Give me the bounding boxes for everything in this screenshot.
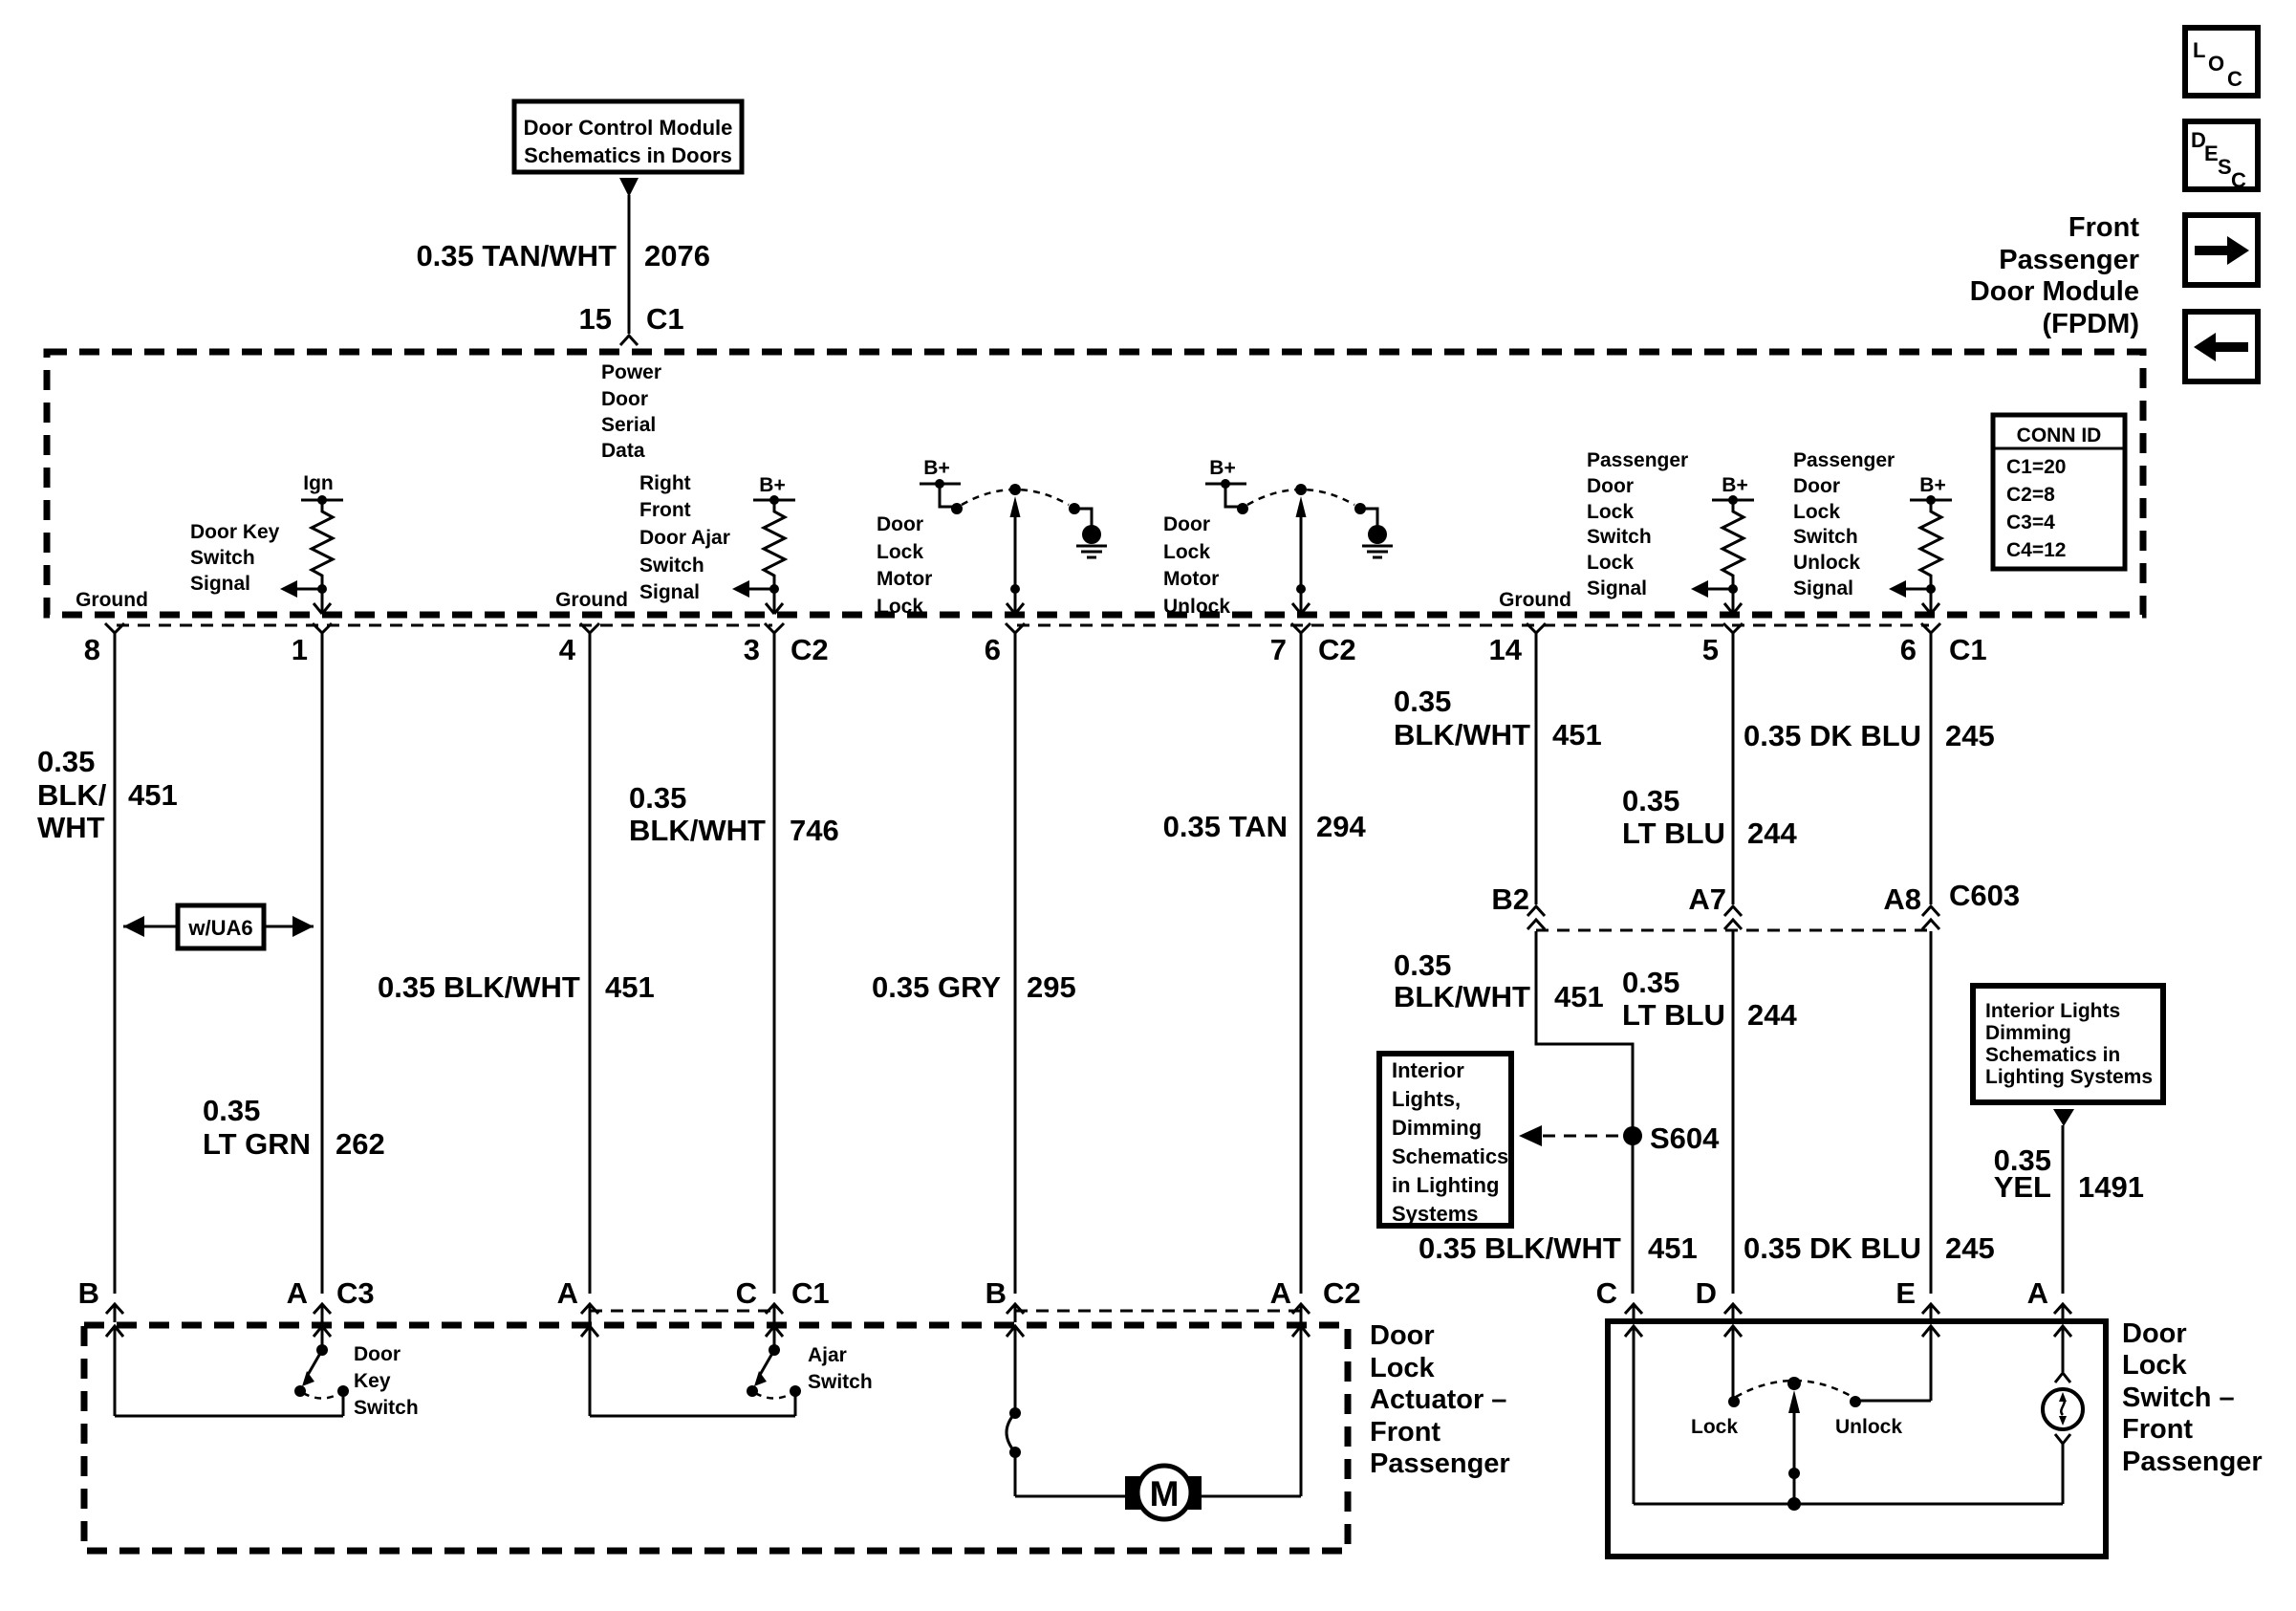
svg-text:C2=8: C2=8 bbox=[2006, 484, 2055, 506]
svg-text:0.35: 0.35 bbox=[1622, 966, 1679, 999]
wire 451 BLK/WHT pin 8 bbox=[114, 633, 117, 1294]
svg-text:Passenger: Passenger bbox=[1370, 1448, 1510, 1479]
svg-text:Passenger: Passenger bbox=[1793, 449, 1895, 471]
pin 6 bbox=[985, 623, 1025, 666]
svg-text:451: 451 bbox=[605, 970, 655, 1004]
resistor: B+ pull-up (door ajar switch signal) bbox=[732, 474, 795, 614]
wire 295 GRY pin 6 bbox=[1014, 633, 1017, 1294]
svg-text:Dimming: Dimming bbox=[1985, 1022, 2071, 1044]
pin 15 C1 connector caret bbox=[620, 336, 638, 345]
svg-text:451: 451 bbox=[1552, 718, 1602, 751]
svg-text:BLK/WHT: BLK/WHT bbox=[629, 814, 766, 847]
svg-text:Lock: Lock bbox=[877, 596, 923, 618]
svg-text:B: B bbox=[986, 1276, 1007, 1310]
svg-text:0.35 TAN/WHT: 0.35 TAN/WHT bbox=[416, 239, 617, 272]
svg-text:Door: Door bbox=[1587, 475, 1634, 497]
svg-text:Schematics: Schematics bbox=[1392, 1144, 1508, 1168]
svg-text:295: 295 bbox=[1027, 970, 1076, 1004]
connector dashed line C2/C1 under module bbox=[117, 624, 772, 627]
svg-text:B+: B+ bbox=[1209, 457, 1235, 479]
svg-text:Lighting Systems: Lighting Systems bbox=[1985, 1066, 2153, 1088]
module FPDM boundary bbox=[47, 352, 2143, 615]
svg-text:M: M bbox=[1150, 1474, 1180, 1513]
svg-text:Signal: Signal bbox=[1793, 577, 1853, 599]
svg-text:B+: B+ bbox=[759, 474, 785, 496]
label wire 262 bbox=[203, 1094, 385, 1161]
svg-text:C2: C2 bbox=[1323, 1276, 1361, 1310]
door key switch bbox=[115, 1327, 419, 1419]
svg-text:C3=4: C3=4 bbox=[2006, 512, 2055, 533]
svg-text:S604: S604 bbox=[1650, 1121, 1720, 1155]
svg-text:Schematics in: Schematics in bbox=[1985, 1044, 2120, 1066]
svg-text:Door: Door bbox=[877, 513, 923, 535]
svg-text:14: 14 bbox=[1489, 633, 1523, 666]
svg-text:Lights,: Lights, bbox=[1392, 1087, 1461, 1111]
label: Door Lock Motor Unlock bbox=[1163, 513, 1230, 618]
svg-text:Door: Door bbox=[601, 388, 648, 410]
svg-text:244: 244 bbox=[1747, 998, 1797, 1032]
svg-text:1: 1 bbox=[292, 633, 308, 666]
wire 262 LT GRN pin 1 bbox=[321, 633, 324, 1294]
label wire 451 pin 8 bbox=[37, 745, 178, 844]
svg-text:0.35 TAN: 0.35 TAN bbox=[1163, 810, 1288, 843]
svg-text:3: 3 bbox=[744, 633, 760, 666]
pin D switch bbox=[1696, 1276, 1742, 1322]
svg-text:Key: Key bbox=[354, 1370, 391, 1392]
resistor: B+ pull-up (lock signal) bbox=[1691, 474, 1754, 614]
connector C603 dashed line bbox=[1536, 929, 1931, 932]
svg-text:L: L bbox=[2193, 38, 2205, 62]
svg-text:BLK/: BLK/ bbox=[37, 778, 107, 812]
svg-text:Ground: Ground bbox=[76, 589, 148, 611]
icon box LOC bbox=[2185, 28, 2258, 96]
actuator pin arrows bbox=[106, 1326, 123, 1337]
svg-text:LT GRN: LT GRN bbox=[203, 1127, 311, 1161]
svg-text:451: 451 bbox=[128, 778, 178, 812]
svg-text:Front: Front bbox=[639, 499, 691, 521]
svg-text:D: D bbox=[1696, 1276, 1717, 1310]
svg-text:Passenger: Passenger bbox=[2122, 1447, 2263, 1477]
svg-text:S: S bbox=[2218, 155, 2232, 179]
svg-text:0.35 DK BLU: 0.35 DK BLU bbox=[1744, 719, 1921, 752]
pin A C2 actuator motor bbox=[1270, 1276, 1361, 1322]
pin A C3 actuator bbox=[287, 1276, 375, 1322]
svg-text:0.35: 0.35 bbox=[1622, 784, 1679, 817]
label: Passenger Door Lock Switch Lock Signal bbox=[1587, 449, 1688, 599]
svg-text:E: E bbox=[1895, 1276, 1916, 1310]
svg-text:BLK/WHT: BLK/WHT bbox=[1394, 718, 1530, 751]
lock/unlock rocker switch bbox=[1634, 1327, 2063, 1511]
header: Front Passenger Door Module (FPDM) bbox=[1970, 212, 2140, 339]
svg-text:245: 245 bbox=[1945, 1231, 1995, 1265]
pin 3 C2 bbox=[744, 623, 829, 666]
reference box: Interior Lights, Dimming Schematics in Lighting Systems (left) bbox=[1379, 1054, 1511, 1226]
svg-text:Motor: Motor bbox=[877, 568, 932, 590]
wire 294 TAN pin 7 bbox=[1300, 633, 1303, 1294]
switch pin arrows bbox=[1625, 1326, 1642, 1337]
svg-text:451: 451 bbox=[1648, 1231, 1698, 1265]
svg-text:Power: Power bbox=[601, 361, 661, 383]
CONN ID table bbox=[1993, 415, 2125, 569]
svg-text:Front: Front bbox=[2122, 1414, 2193, 1445]
svg-text:Lock: Lock bbox=[1163, 541, 1210, 563]
splice S604 bbox=[1623, 1121, 1720, 1155]
svg-text:Front: Front bbox=[2069, 212, 2139, 243]
svg-text:C4=12: C4=12 bbox=[2006, 539, 2066, 561]
dashed reference arrow from S604 bbox=[1519, 1125, 1621, 1146]
svg-text:451: 451 bbox=[1554, 980, 1604, 1013]
connector C603 row B2 A7 A8 bbox=[1491, 879, 2020, 916]
wire 451 BLK/WHT pin 14 to S604 and door lock switch bbox=[1536, 633, 1633, 1294]
svg-text:Lock: Lock bbox=[1587, 552, 1634, 574]
svg-text:Ground: Ground bbox=[1499, 589, 1571, 611]
label wire 244 upper bbox=[1622, 784, 1797, 850]
pin C C1 actuator bbox=[736, 1276, 830, 1322]
svg-text:1491: 1491 bbox=[2078, 1170, 2144, 1204]
svg-text:Actuator –: Actuator – bbox=[1370, 1384, 1506, 1415]
label wire 294 bbox=[1163, 810, 1367, 843]
svg-text:Door Key: Door Key bbox=[190, 521, 280, 543]
svg-text:C2: C2 bbox=[1318, 633, 1356, 666]
icon box arrow left bbox=[2185, 312, 2258, 381]
pin 1 bbox=[292, 623, 332, 666]
label: Door Lock Actuator - Front Passenger bbox=[1370, 1320, 1510, 1479]
pin 14 bbox=[1489, 623, 1546, 666]
svg-text:294: 294 bbox=[1316, 810, 1366, 843]
illumination lamp bbox=[2043, 1327, 2083, 1504]
svg-text:C1: C1 bbox=[646, 302, 684, 336]
resistor: Ign pull-up (door key switch signal) bbox=[280, 472, 343, 614]
svg-text:8: 8 bbox=[84, 633, 100, 666]
circuit breaker + motor M bbox=[1007, 1327, 1301, 1519]
svg-text:C2: C2 bbox=[791, 633, 829, 666]
svg-text:in Lighting: in Lighting bbox=[1392, 1173, 1499, 1197]
svg-text:0.35 BLK/WHT: 0.35 BLK/WHT bbox=[1419, 1231, 1621, 1265]
svg-text:Data: Data bbox=[601, 440, 645, 462]
svg-text:Door Control Module: Door Control Module bbox=[524, 116, 733, 140]
svg-text:C: C bbox=[1596, 1276, 1617, 1310]
svg-text:Systems: Systems bbox=[1392, 1202, 1479, 1226]
svg-text:0.35: 0.35 bbox=[37, 745, 95, 778]
label wire 245 upper bbox=[1744, 719, 1995, 752]
door lock switch solid box bbox=[1608, 1321, 2106, 1557]
wire 245 DK BLU pin 6 C1 bbox=[1930, 633, 1933, 1294]
label: Door Lock Motor Lock bbox=[877, 513, 932, 618]
svg-text:LT BLU: LT BLU bbox=[1622, 998, 1725, 1032]
pin 6 C1 bbox=[1900, 623, 1987, 666]
svg-text:(FPDM): (FPDM) bbox=[2043, 309, 2139, 339]
wire 746 BLK/WHT pin 3 bbox=[773, 633, 776, 1294]
pin A actuator (ajar) bbox=[557, 1276, 598, 1322]
svg-text:Switch: Switch bbox=[1587, 526, 1652, 548]
svg-text:5: 5 bbox=[1702, 633, 1719, 666]
svg-text:B+: B+ bbox=[1722, 474, 1747, 496]
svg-text:Signal: Signal bbox=[190, 573, 250, 595]
label wire 1491 YEL bbox=[1994, 1143, 2144, 1204]
icon box DESC bbox=[2185, 121, 2258, 192]
label: Power Door Serial Data bbox=[601, 361, 661, 462]
svg-text:262: 262 bbox=[336, 1127, 385, 1161]
svg-text:CONN ID: CONN ID bbox=[2017, 425, 2102, 446]
svg-text:0.35 DK BLU: 0.35 DK BLU bbox=[1744, 1231, 1921, 1265]
pin 8 bbox=[84, 623, 124, 666]
svg-text:Lock: Lock bbox=[1691, 1416, 1738, 1438]
svg-text:BLK/WHT: BLK/WHT bbox=[1394, 980, 1530, 1013]
svg-text:244: 244 bbox=[1747, 816, 1797, 850]
svg-text:Switch: Switch bbox=[639, 555, 704, 577]
svg-text:Dimming: Dimming bbox=[1392, 1116, 1482, 1140]
pin E switch bbox=[1895, 1276, 1939, 1322]
wire 244 LT BLU pin 5 bbox=[1732, 633, 1735, 1294]
svg-text:C1: C1 bbox=[1949, 633, 1987, 666]
label wire 451 pin 14 upper bbox=[1394, 685, 1602, 751]
label: Door Lock Switch - Front Passenger bbox=[2122, 1318, 2263, 1477]
svg-text:4: 4 bbox=[559, 633, 576, 666]
pin 7 C2 bbox=[1270, 623, 1356, 666]
svg-text:B: B bbox=[78, 1276, 99, 1310]
pin 4 bbox=[559, 623, 599, 666]
connector dashed line bottom bbox=[590, 1310, 774, 1313]
svg-text:Ground: Ground bbox=[555, 589, 628, 611]
svg-text:C: C bbox=[2231, 168, 2246, 192]
svg-text:7: 7 bbox=[1270, 633, 1287, 666]
svg-text:C603: C603 bbox=[1949, 879, 2020, 912]
svg-text:A: A bbox=[557, 1276, 578, 1310]
icon box arrow right bbox=[2185, 215, 2258, 285]
svg-text:Unlock: Unlock bbox=[1163, 596, 1230, 618]
svg-text:A7: A7 bbox=[1688, 882, 1726, 916]
wire 451 BLK/WHT pin 4 bbox=[589, 633, 592, 1294]
svg-text:C3: C3 bbox=[336, 1276, 375, 1310]
svg-text:Door: Door bbox=[1370, 1320, 1435, 1351]
svg-text:Switch: Switch bbox=[190, 547, 255, 569]
svg-text:0.35: 0.35 bbox=[203, 1094, 260, 1127]
svg-text:Right: Right bbox=[639, 472, 691, 494]
svg-text:Signal: Signal bbox=[1587, 577, 1647, 599]
driver output: door lock motor unlock (B+ / ground switch) bbox=[1205, 457, 1393, 614]
pin B actuator motor bbox=[986, 1276, 1024, 1322]
pin 5 bbox=[1702, 623, 1743, 666]
driver output: door lock motor lock (B+ / ground switch) bbox=[920, 457, 1107, 614]
svg-text:B+: B+ bbox=[923, 457, 949, 479]
svg-text:Door Ajar: Door Ajar bbox=[639, 527, 730, 549]
svg-text:Lock: Lock bbox=[2122, 1350, 2188, 1381]
svg-text:Serial: Serial bbox=[601, 414, 656, 436]
actuator dashed box bbox=[84, 1325, 1348, 1551]
svg-text:w/UA6: w/UA6 bbox=[187, 916, 252, 940]
svg-text:15: 15 bbox=[579, 302, 612, 336]
svg-text:Interior: Interior bbox=[1392, 1058, 1464, 1082]
svg-text:E: E bbox=[2204, 142, 2219, 165]
svg-text:Lock: Lock bbox=[877, 541, 923, 563]
svg-text:0.35: 0.35 bbox=[1394, 948, 1451, 982]
svg-text:C: C bbox=[2227, 67, 2242, 91]
label wire 244 below A7 bbox=[1622, 966, 1797, 1032]
svg-text:Switch: Switch bbox=[354, 1397, 419, 1419]
svg-text:Lock: Lock bbox=[1587, 501, 1634, 523]
svg-text:A: A bbox=[287, 1276, 308, 1310]
C603 in-line connector carets bbox=[1527, 906, 1939, 929]
svg-text:B2: B2 bbox=[1491, 882, 1529, 916]
label wire 451 below B2 bbox=[1394, 948, 1604, 1013]
w/UA6 option tag bbox=[123, 905, 314, 948]
pin B actuator bbox=[78, 1276, 123, 1322]
svg-text:Lock: Lock bbox=[1793, 501, 1840, 523]
svg-text:C1: C1 bbox=[791, 1276, 830, 1310]
label wire 295 bbox=[872, 970, 1076, 1004]
svg-text:2076: 2076 bbox=[644, 239, 710, 272]
svg-text:Ign: Ign bbox=[303, 472, 334, 494]
svg-text:6: 6 bbox=[985, 633, 1001, 666]
svg-text:0.35 GRY: 0.35 GRY bbox=[872, 970, 1001, 1004]
svg-text:Switch: Switch bbox=[808, 1371, 873, 1393]
svg-text:Passenger: Passenger bbox=[1587, 449, 1688, 471]
label: Right Front Door Ajar Switch Signal bbox=[639, 472, 730, 603]
svg-text:0.35: 0.35 bbox=[629, 781, 686, 815]
svg-text:Switch: Switch bbox=[1793, 526, 1858, 548]
svg-text:6: 6 bbox=[1900, 633, 1917, 666]
reference box: Interior Lights Dimming Schematics in Lighting Systems (right) bbox=[1973, 986, 2163, 1126]
svg-text:B+: B+ bbox=[1919, 474, 1945, 496]
svg-text:Schematics in Doors: Schematics in Doors bbox=[524, 143, 732, 167]
svg-text:Motor: Motor bbox=[1163, 568, 1219, 590]
svg-text:0.35: 0.35 bbox=[1394, 685, 1451, 718]
svg-text:A8: A8 bbox=[1883, 882, 1921, 916]
svg-text:Front: Front bbox=[1370, 1417, 1440, 1448]
svg-text:Passenger: Passenger bbox=[1999, 245, 2139, 275]
label wire 451 pin 4 bbox=[378, 970, 655, 1004]
svg-text:Signal: Signal bbox=[639, 581, 700, 603]
svg-text:Lock: Lock bbox=[1370, 1353, 1436, 1383]
svg-text:O: O bbox=[2208, 52, 2224, 76]
svg-text:Ajar: Ajar bbox=[808, 1344, 847, 1366]
wire 1491 YEL bbox=[2062, 1125, 2065, 1294]
svg-text:Door: Door bbox=[1163, 513, 1210, 535]
ajar switch bbox=[590, 1327, 873, 1416]
svg-text:C1=20: C1=20 bbox=[2006, 456, 2066, 478]
svg-text:Door: Door bbox=[2122, 1318, 2187, 1349]
svg-text:A: A bbox=[2027, 1276, 2048, 1310]
reference box: Door Control Module Schematics in Doors bbox=[514, 101, 742, 197]
svg-text:746: 746 bbox=[790, 814, 839, 847]
label wire 451 bottom bbox=[1419, 1231, 1698, 1265]
pin C switch bbox=[1596, 1276, 1642, 1322]
label: Passenger Door Lock Switch Unlock Signal bbox=[1793, 449, 1895, 599]
svg-text:A: A bbox=[1270, 1276, 1291, 1310]
svg-text:Door: Door bbox=[1793, 475, 1840, 497]
svg-text:Door Module: Door Module bbox=[1970, 276, 2139, 307]
svg-text:Unlock: Unlock bbox=[1793, 552, 1860, 574]
pin A switch bbox=[2027, 1276, 2071, 1322]
wire 2076 TAN/WHT serial data bbox=[416, 195, 710, 336]
label wire 245 bottom bbox=[1744, 1231, 1995, 1265]
label wire 746 bbox=[629, 781, 839, 847]
svg-text:0.35 BLK/WHT: 0.35 BLK/WHT bbox=[378, 970, 580, 1004]
svg-text:LT BLU: LT BLU bbox=[1622, 816, 1725, 850]
svg-text:Unlock: Unlock bbox=[1835, 1416, 1902, 1438]
svg-text:WHT: WHT bbox=[37, 811, 105, 844]
label: Door Key Switch Signal bbox=[190, 521, 280, 595]
svg-text:Switch –: Switch – bbox=[2122, 1382, 2235, 1413]
resistor: B+ pull-up (unlock signal) bbox=[1889, 474, 1952, 614]
svg-text:C: C bbox=[736, 1276, 757, 1310]
svg-text:Interior Lights: Interior Lights bbox=[1985, 1000, 2120, 1022]
svg-text:245: 245 bbox=[1945, 719, 1995, 752]
svg-text:Door: Door bbox=[354, 1343, 401, 1365]
svg-text:YEL: YEL bbox=[1994, 1170, 2051, 1204]
